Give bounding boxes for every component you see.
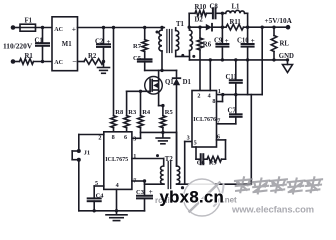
wire gate — [127, 90, 151, 92]
wire — [13, 27, 20, 29]
node junction — [221, 12, 224, 15]
capacitor C8 — [210, 4, 223, 19]
node junction — [41, 26, 44, 29]
node junction — [41, 60, 44, 63]
node AC input bottom terminal — [11, 59, 16, 64]
wire — [141, 131, 177, 133]
wire — [36, 27, 53, 29]
node junction — [234, 58, 237, 61]
wire — [78, 61, 85, 63]
node polarity dot — [156, 31, 159, 34]
resistor R4 — [138, 91, 151, 138]
node junction — [161, 104, 164, 107]
wire — [250, 95, 252, 185]
inductor L1 — [222, 4, 247, 14]
pin 8 — [112, 134, 115, 141]
node junction — [143, 26, 146, 29]
svg-text:3: 3 — [187, 134, 190, 141]
svg-text:RL: RL — [280, 41, 290, 48]
transformer T1 secondary — [190, 27, 193, 60]
svg-text:4: 4 — [208, 92, 211, 99]
capacitor C9 — [214, 27, 229, 60]
pin 6 — [124, 134, 127, 141]
node junction — [102, 60, 105, 63]
wire ground rail — [79, 210, 145, 212]
svg-text:R10: R10 — [195, 4, 207, 11]
label 110/220V — [3, 42, 33, 51]
resistor R10 — [189, 4, 213, 27]
resistor RL — [271, 27, 289, 60]
node junction — [102, 26, 105, 29]
node polarity dot — [181, 54, 184, 57]
pin 2 — [98, 135, 101, 142]
pin 1 — [218, 88, 221, 95]
label T2 — [165, 156, 174, 163]
capacitor C5 — [133, 52, 152, 71]
node junction — [221, 58, 224, 61]
capacitor C10 — [237, 27, 255, 60]
op-amp U1 ICL7675 — [104, 132, 132, 190]
transformer T1 primary — [159, 28, 162, 71]
svg-text:+: + — [225, 37, 229, 45]
svg-text:+: + — [251, 37, 255, 45]
label GND — [279, 53, 294, 60]
transformer T1 aux winding — [176, 28, 190, 57]
svg-text:8: 8 — [112, 134, 115, 141]
fuse F1 — [20, 18, 36, 32]
resistor R7 — [133, 28, 148, 52]
svg-text:D1: D1 — [183, 79, 192, 86]
op-amp U2 ICL7676 — [192, 91, 217, 148]
node junction — [115, 209, 118, 212]
capacitor C6 — [197, 154, 207, 166]
svg-text:Q1: Q1 — [165, 79, 174, 86]
wire — [247, 60, 249, 95]
capacitor C4 — [88, 193, 105, 211]
wire — [177, 183, 252, 185]
svg-text:R6: R6 — [203, 42, 212, 49]
transistor Q1 — [145, 70, 175, 105]
capacitor C1 — [35, 28, 50, 62]
pin 5 — [95, 180, 98, 187]
wire pin4 IC2 — [209, 60, 211, 91]
resistor R8 — [111, 109, 124, 132]
diode D2 — [195, 16, 223, 30]
svg-text:ICL7675: ICL7675 — [105, 157, 128, 163]
resistor R3 — [124, 91, 137, 132]
node junction — [143, 179, 146, 182]
node junction — [160, 69, 163, 72]
pin 7 — [133, 178, 136, 185]
pin 6 — [217, 134, 220, 141]
node junction — [160, 26, 163, 29]
svg-text:C2: C2 — [95, 39, 104, 46]
wire pin7 IC1 — [132, 180, 145, 182]
jumper J1 — [72, 149, 90, 162]
transformer T2 secondary — [177, 132, 180, 184]
label T1 — [176, 21, 185, 28]
resistor R2 — [84, 53, 104, 64]
wire — [261, 27, 263, 94]
wire node line — [217, 94, 263, 96]
wire pin3 IC2 — [185, 142, 192, 185]
svg-text:7: 7 — [217, 118, 220, 125]
node junction — [261, 26, 264, 29]
resistor R5 — [159, 106, 174, 133]
svg-text:C9: C9 — [214, 38, 223, 45]
svg-text:R4: R4 — [142, 109, 151, 116]
node junction — [188, 26, 191, 29]
wire — [113, 28, 115, 116]
node polarity dot — [156, 154, 159, 157]
node junction — [221, 26, 224, 29]
resistor R1 — [20, 53, 34, 64]
svg-text:F1: F1 — [25, 18, 33, 25]
node junction — [112, 26, 115, 29]
ground — [156, 132, 170, 143]
resistor R6 — [197, 27, 212, 90]
svg-text:C10: C10 — [237, 38, 249, 45]
rectifier M1 — [52, 17, 78, 71]
svg-text:2: 2 — [197, 92, 200, 99]
node junction — [209, 58, 212, 61]
transformer T1 core — [167, 30, 172, 53]
svg-text:C1: C1 — [35, 38, 44, 45]
node junction — [246, 58, 249, 61]
node junction — [286, 58, 289, 61]
pin 8 — [212, 98, 215, 105]
svg-text:C4: C4 — [96, 193, 105, 200]
svg-text:R8: R8 — [115, 109, 124, 116]
svg-text:3: 3 — [133, 136, 136, 143]
wire — [34, 61, 53, 63]
svg-text:ybx8.cn: ybx8.cn — [160, 188, 225, 207]
node junction — [272, 58, 275, 61]
wire pin2 IC1 — [79, 135, 104, 152]
wire — [221, 13, 223, 27]
node junction — [161, 131, 164, 134]
svg-text:R2: R2 — [88, 53, 97, 60]
node junction — [246, 26, 249, 29]
ground — [106, 211, 127, 221]
svg-text:8: 8 — [212, 98, 215, 105]
svg-text:T1: T1 — [176, 21, 185, 28]
pin 1 — [133, 153, 136, 160]
pin 3 — [187, 134, 190, 141]
wire — [78, 160, 80, 211]
svg-text:J1: J1 — [84, 150, 91, 157]
ground chassis — [283, 60, 293, 73]
svg-text:C5: C5 — [133, 55, 142, 62]
svg-text:C8: C8 — [210, 4, 219, 11]
wire — [189, 26, 206, 28]
node junction — [272, 26, 275, 29]
svg-text:GND: GND — [279, 53, 294, 60]
svg-text:M1: M1 — [62, 41, 72, 48]
svg-text:www.elecfans.com: www.elecfans.com — [231, 204, 314, 215]
wire — [247, 13, 249, 27]
wire pin6 IC2 — [217, 140, 226, 159]
svg-text:T2: T2 — [165, 156, 174, 163]
svg-text:R9: R9 — [209, 159, 218, 166]
svg-text:AC: AC — [54, 27, 63, 33]
node junction — [93, 209, 96, 212]
svg-text:R7: R7 — [133, 43, 142, 50]
svg-text:R11: R11 — [230, 19, 242, 26]
wire — [248, 26, 288, 28]
wire — [145, 69, 177, 71]
svg-text:6: 6 — [124, 134, 127, 141]
wire — [145, 183, 165, 185]
node polarity dot — [192, 55, 195, 58]
ground — [98, 62, 110, 74]
svg-text:+: + — [72, 24, 76, 33]
capacitor C11 — [226, 60, 242, 95]
svg-text:R1: R1 — [25, 53, 34, 60]
node AC input top terminal — [11, 25, 16, 30]
capacitor C3 — [136, 181, 153, 211]
label +5V/10A — [265, 17, 293, 25]
transformer T2 core — [168, 162, 171, 189]
node polarity dot — [181, 186, 184, 189]
wire pin5 IC1 — [94, 186, 104, 198]
pin 3 — [133, 136, 136, 143]
svg-text:2: 2 — [98, 135, 101, 142]
node +5V terminal — [286, 25, 291, 30]
pin 4 — [116, 182, 119, 189]
wire pin5 IC2 — [196, 147, 201, 159]
transformer T2 primary — [161, 166, 164, 184]
capacitor C7 — [228, 95, 242, 124]
wire pin1 IC1 — [132, 159, 164, 167]
pin 4 — [208, 92, 211, 99]
pin 5 — [194, 140, 197, 147]
svg-text:−: − — [72, 57, 76, 66]
svg-text:4: 4 — [116, 182, 119, 189]
svg-text:+: + — [107, 38, 111, 46]
resistor R9 — [207, 156, 226, 166]
svg-text:ICL7676: ICL7676 — [193, 117, 216, 123]
svg-text:110/220V: 110/220V — [3, 42, 33, 51]
wire pin3 IC1 — [130, 137, 141, 139]
node junction — [234, 93, 237, 96]
watermark overlay — [155, 177, 322, 216]
svg-text:R5: R5 — [165, 109, 174, 116]
svg-text:+5V/10A: +5V/10A — [265, 17, 293, 25]
capacitor C2 — [95, 28, 111, 62]
diode D1 — [173, 70, 192, 166]
pin 7 — [217, 118, 220, 125]
wire secondary ground rail — [190, 59, 288, 61]
svg-text:AC: AC — [54, 60, 63, 66]
resistor R11 — [222, 19, 247, 30]
node junction — [198, 26, 201, 29]
svg-text:5: 5 — [194, 140, 197, 147]
pin 2 — [197, 92, 200, 99]
svg-text:1: 1 — [218, 88, 221, 95]
svg-text:L1: L1 — [232, 4, 241, 11]
svg-text:C6: C6 — [197, 159, 206, 166]
svg-text:C3: C3 — [136, 189, 145, 196]
wire — [78, 27, 165, 29]
wire pin4 IC1 — [116, 189, 118, 210]
node junction — [221, 93, 224, 96]
wire pin7 IC2 — [217, 123, 236, 125]
node junction — [139, 90, 142, 93]
wire pin8 IC2 — [217, 95, 223, 102]
svg-text:C7: C7 — [228, 108, 237, 115]
svg-text:R3: R3 — [128, 109, 137, 116]
svg-text:C11: C11 — [226, 74, 238, 81]
wire — [13, 61, 20, 63]
svg-text:+: + — [149, 188, 153, 196]
